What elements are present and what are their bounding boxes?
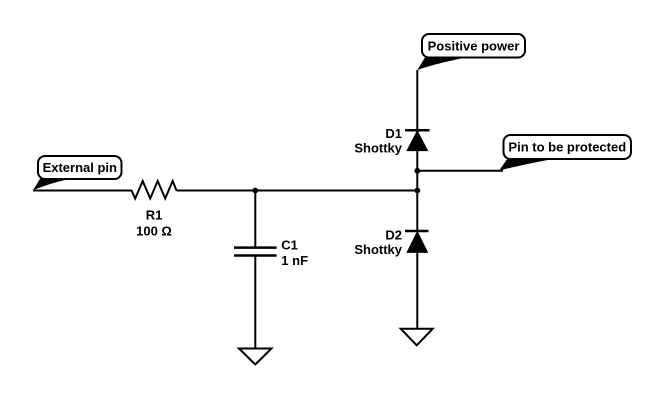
wire: positive power to D1 bbox=[416, 70, 418, 130]
svg-text:C1: C1 bbox=[281, 238, 298, 253]
junction: pin node bbox=[414, 168, 420, 174]
capacitor C1 bbox=[234, 248, 277, 256]
wire: D1 to pin node bbox=[416, 151, 418, 171]
diode D1 (Schottky, cathode up) bbox=[405, 130, 430, 150]
svg-text:Positive power: Positive power bbox=[428, 38, 520, 53]
svg-text:Shottky: Shottky bbox=[354, 242, 402, 257]
ground (under D2) bbox=[401, 329, 433, 346]
label R1 value 100 Ω bbox=[136, 208, 172, 239]
ground (under C1) bbox=[239, 349, 272, 365]
svg-text:D2: D2 bbox=[385, 228, 402, 243]
svg-text:R1: R1 bbox=[146, 208, 163, 223]
svg-text:1 nF: 1 nF bbox=[281, 253, 308, 268]
label D1 Shottky bbox=[354, 126, 402, 156]
callout: External pin bbox=[33, 156, 122, 191]
resistor R1 bbox=[132, 181, 177, 199]
wire: pin node to callout anchor bbox=[417, 170, 503, 172]
junction: C1 node bbox=[252, 188, 258, 194]
wire: D2 to ground bbox=[416, 253, 418, 329]
diode D2 (Schottky, cathode up) bbox=[405, 231, 429, 252]
svg-text:100 Ω: 100 Ω bbox=[136, 224, 172, 239]
wire: main node to D2 bbox=[416, 191, 418, 232]
wire: R1 to main node bbox=[177, 190, 418, 192]
wire: pin node to main node bbox=[416, 171, 418, 191]
wire: C1 bottom plate to ground bbox=[254, 256, 256, 349]
wire: node to C1 top plate bbox=[254, 191, 256, 248]
wire: external pin to R1 bbox=[33, 190, 132, 192]
svg-text:External pin: External pin bbox=[43, 160, 117, 175]
callout: Positive power bbox=[417, 34, 525, 70]
svg-text:Shottky: Shottky bbox=[354, 141, 402, 156]
svg-text:D1: D1 bbox=[385, 126, 402, 141]
junction: main node bbox=[414, 188, 420, 194]
svg-text:Pin to be protected: Pin to be protected bbox=[508, 140, 626, 155]
callout: Pin to be protected bbox=[499, 135, 631, 171]
label C1 value 1 nF bbox=[281, 238, 308, 269]
label D2 Shottky bbox=[354, 228, 402, 258]
